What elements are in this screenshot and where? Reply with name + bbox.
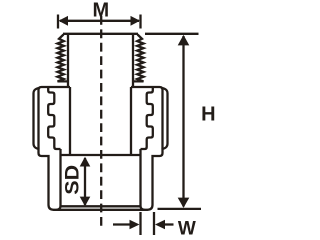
svg-text:M: M	[92, 0, 109, 21]
svg-text:W: W	[178, 218, 196, 239]
svg-text:SD: SD	[62, 165, 83, 195]
svg-text:H: H	[201, 103, 215, 125]
